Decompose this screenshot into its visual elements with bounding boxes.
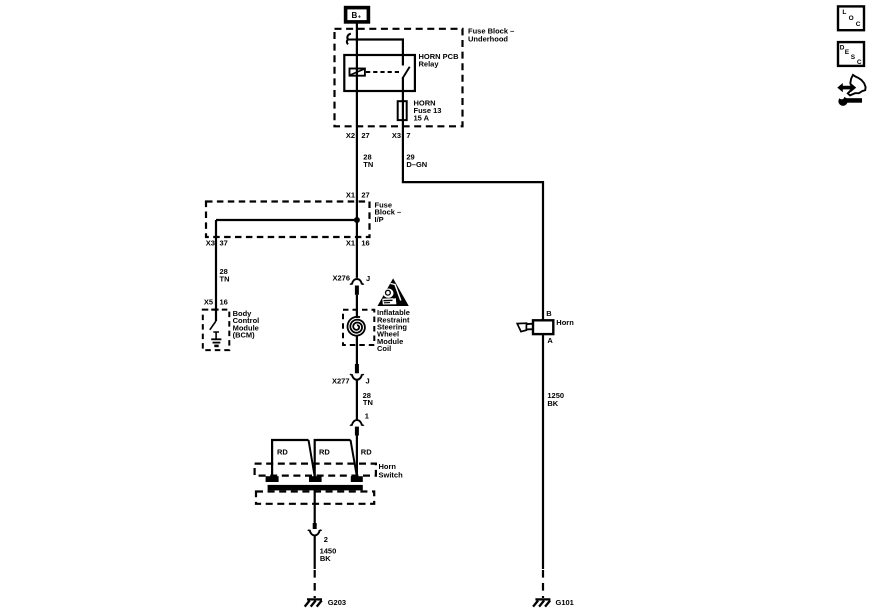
svg-text:TN: TN (363, 398, 373, 407)
horn component box (533, 320, 553, 334)
wire: spiral to X277 (356, 336, 358, 364)
horn switch common bus bar (268, 485, 363, 491)
svg-text:G101: G101 (556, 598, 574, 607)
fuse block I/P dashed box (206, 202, 370, 238)
wire: I/P to BCM branch (215, 220, 217, 321)
svg-text:D–GN: D–GN (406, 160, 427, 169)
svg-text:RD: RD (319, 448, 330, 457)
wire: connector to horn switch contact 3 (356, 436, 358, 478)
svg-text:16: 16 (220, 298, 228, 307)
ground G203 (305, 599, 322, 606)
svg-text:O: O (849, 15, 854, 22)
svg-text:27: 27 (361, 131, 369, 140)
svg-text:J: J (366, 377, 370, 386)
wire: connector 2 to ground G203 (solid then dashed) (314, 535, 316, 569)
wire: feed from trunk to relay switch contact (357, 40, 403, 66)
svg-text:15 A: 15 A (414, 113, 430, 122)
connector at horn switch pin 1 (cup over stub) (350, 420, 364, 435)
svg-text:I/P: I/P (375, 215, 384, 224)
wire: relay switch to fuse (402, 77, 404, 102)
junction node on trunk (354, 217, 360, 223)
svg-text:Coil: Coil (377, 344, 391, 353)
svg-text:TN: TN (363, 160, 373, 169)
icon jump-to-service (double arrow, outline arrow, wrench) (837, 75, 865, 106)
svg-text:TN: TN (220, 274, 230, 283)
svg-text:B: B (546, 309, 552, 318)
svg-text:27: 27 (361, 190, 369, 199)
svg-text:37: 37 (220, 239, 228, 248)
wire: horn switch common to connector 2 (314, 490, 316, 523)
horn switch ladder bar 2 (315, 440, 351, 477)
svg-text:BK: BK (320, 554, 331, 563)
relay coil (350, 69, 365, 76)
svg-text:Horn: Horn (556, 318, 574, 327)
wire: fuse output to horn (29 D-GN), corner to right side (403, 120, 543, 320)
relay switch arm (open contact) (403, 67, 410, 78)
BCM internal switch arm (210, 321, 216, 330)
fuse F13 HORN Fuse body (398, 101, 407, 120)
relay U1 HORN PCB Relay outline box (344, 55, 415, 91)
svg-text:A: A (547, 336, 553, 345)
svg-text:E: E (845, 49, 850, 56)
svg-text:B: B (352, 11, 358, 20)
svg-text:7: 7 (406, 131, 410, 140)
svg-text:L: L (842, 9, 846, 16)
svg-text:X1: X1 (346, 190, 355, 199)
fuse block underhood dashed box (335, 29, 463, 127)
fusible element hook at bus tap (347, 34, 357, 45)
horn switch contact pads (266, 476, 279, 482)
svg-text:Underhood: Underhood (468, 35, 508, 44)
horn switch slant arm 2 (351, 440, 357, 477)
svg-text:+: + (358, 14, 361, 20)
svg-text:RD: RD (361, 448, 372, 457)
svg-text:G203: G203 (328, 598, 346, 607)
svg-text:X2: X2 (346, 131, 355, 140)
svg-text:X3: X3 (206, 239, 215, 248)
battery feed terminal B+ (346, 8, 369, 22)
wire: horn to ground G101, 1250 BK (542, 335, 544, 569)
svg-text:X277: X277 (332, 376, 350, 385)
wire: X276 to coil module (356, 295, 358, 318)
wire: X277 down to pin 1 connector (356, 380, 358, 421)
svg-text:2: 2 (324, 535, 328, 544)
horn trumpet icon (517, 323, 533, 331)
svg-text:BK: BK (547, 399, 558, 408)
BCM pin tick (211, 309, 218, 311)
ground G101 (533, 599, 550, 606)
horn switch ladder bar 1 (272, 440, 308, 477)
SIR warning triangle icon (378, 278, 409, 306)
svg-text:X5: X5 (204, 298, 213, 307)
svg-text:C: C (856, 21, 861, 28)
clockspring spiral coil (348, 317, 365, 336)
svg-text:1: 1 (365, 412, 369, 421)
connector 2 (stub over cup) (308, 523, 322, 535)
svg-text:Horn: Horn (379, 462, 397, 471)
svg-text:X276: X276 (332, 274, 350, 283)
wire: B+ down to relay coil (trunk upper) (356, 22, 358, 278)
relay actuation dashed link (366, 71, 400, 73)
horn switch lower dashed box (256, 492, 374, 504)
svg-text:S: S (851, 54, 856, 61)
horn switch slant arm 1 (309, 440, 315, 477)
svg-text:J: J (366, 274, 370, 283)
svg-text:16: 16 (361, 239, 369, 248)
svg-text:(BCM): (BCM) (233, 331, 256, 340)
connector X277 (stub over cup) (350, 364, 364, 380)
svg-text:Relay: Relay (419, 60, 440, 69)
BCM internal ground (211, 332, 221, 346)
bus wire inside fuse block I/P (216, 219, 357, 221)
svg-text:C: C (857, 59, 862, 66)
clockspring coil dashed box (343, 310, 374, 345)
svg-text:RD: RD (277, 448, 288, 457)
BCM dashed box (203, 310, 230, 351)
svg-text:Switch: Switch (379, 471, 404, 480)
horn switch dashed box (255, 464, 376, 476)
connector X276 (cup over stub) (350, 279, 364, 295)
svg-text:X1: X1 (346, 239, 355, 248)
svg-text:X3: X3 (392, 131, 401, 140)
icon LOC button (838, 6, 864, 30)
icon DESC button (838, 42, 864, 66)
